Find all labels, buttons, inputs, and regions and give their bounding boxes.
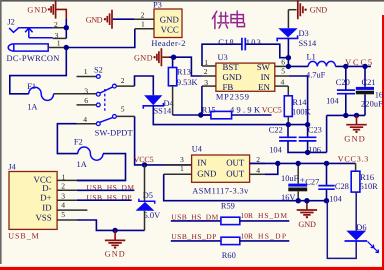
- svg-text:F1: F1: [27, 82, 36, 91]
- svg-text:C23: C23: [308, 126, 322, 135]
- wire L1 to VCC5 rail: [336, 65, 372, 67]
- wire USB_HS_DP net: [77, 199, 132, 201]
- wire J2 pin2-pin3 tie: [65, 28, 67, 39]
- resistor R14: [287, 86, 289, 96]
- wire J2 pin1 to P3 VCC: [66, 29, 135, 48]
- C27 top lead: [297, 163, 299, 183]
- S2 blade upper: [100, 87, 112, 93]
- svg-text:FB: FB: [223, 82, 234, 92]
- svg-text:F2: F2: [74, 138, 83, 147]
- S2 pin 6 line: [77, 104, 97, 106]
- LED D6 cathode bar: [345, 240, 368, 242]
- ground symbol (C20/C21): [344, 115, 366, 143]
- svg-text:16: 16: [375, 90, 383, 99]
- svg-text:10R: 10R: [241, 231, 254, 240]
- svg-text:C21: C21: [362, 78, 376, 87]
- svg-text:VCC3.3: VCC3.3: [338, 154, 369, 163]
- U3 pin 5 line: [275, 75, 289, 77]
- U4 pin 1 line: [164, 173, 192, 175]
- svg-text:104: 104: [269, 145, 282, 154]
- node C20 bottom junction: [343, 113, 348, 118]
- wire R13 bottom to FB node: [173, 114, 211, 116]
- svg-text:C28: C28: [335, 182, 349, 191]
- svg-text:USB_HS_DP: USB_HS_DP: [171, 232, 216, 241]
- svg-text:R13: R13: [177, 68, 191, 77]
- sheet bottom red border: [0, 267, 384, 270]
- svg-text:6: 6: [84, 96, 88, 105]
- svg-text:VCC5: VCC5: [345, 58, 372, 67]
- svg-text:GND: GND: [310, 6, 328, 15]
- fuse F1 body: [29, 87, 54, 100]
- J2 pin 1 line: [48, 47, 66, 49]
- sheet left border: [0, 0, 2, 264]
- svg-text:R16: R16: [360, 173, 374, 182]
- svg-text:1: 1: [84, 67, 88, 76]
- wire U3 FB down to R15: [201, 86, 203, 115]
- C22 top lead: [287, 125, 289, 138]
- svg-text:104: 104: [329, 195, 342, 204]
- svg-text:IN: IN: [197, 158, 207, 168]
- S2 pin 3 contact circle: [96, 92, 100, 96]
- svg-text:IN: IN: [261, 72, 271, 82]
- U3 pin 4 line: [275, 85, 289, 87]
- svg-text:104: 104: [326, 97, 339, 106]
- svg-text:OUT: OUT: [226, 158, 245, 168]
- resistor R13: [172, 57, 174, 67]
- svg-text:USB_M: USB_M: [8, 231, 39, 240]
- S2 blade lower: [100, 118, 113, 123]
- U3 pin 2 line: [202, 75, 216, 77]
- svg-text:10uF: 10uF: [281, 174, 299, 183]
- resistor R59 body: [221, 217, 240, 224]
- wire D6 return to gnd rail: [327, 201, 356, 259]
- capacitor C18 plates: [242, 38, 245, 51]
- svg-text:4: 4: [83, 115, 87, 124]
- P3 pin 1 line: [135, 28, 154, 30]
- diode D4 cathode bar: [143, 103, 163, 109]
- svg-text:R59: R59: [221, 202, 235, 211]
- LED arrows: [368, 242, 374, 248]
- wire U3 pin5 IN to VIN rail: [289, 76, 308, 125]
- capacitor C27 positive plate: [288, 184, 307, 187]
- wire U4 pin4 up to out: [265, 163, 278, 174]
- VCC3.3 output line: [250, 162, 356, 164]
- svg-text:SW: SW: [257, 62, 271, 72]
- svg-text:GND: GND: [223, 72, 242, 82]
- J2 jack tip graphic: [9, 27, 19, 32]
- J4 pin 3 line: [57, 199, 77, 201]
- LED D6 arrow 2: [372, 246, 378, 252]
- C20 top lead: [345, 66, 347, 90]
- wire C18 left to U3 pin1: [202, 44, 242, 66]
- wire C18 right to D3 node: [245, 44, 288, 58]
- fuse F2 body: [78, 147, 103, 160]
- S2 pin 5 line: [116, 115, 134, 117]
- R16 bottom lead: [355, 192, 357, 231]
- wire GND to J2 pin2 node: [65, 19, 67, 28]
- wire J4 pin1 up to F2: [77, 179, 126, 181]
- svg-text:L1: L1: [307, 53, 316, 62]
- svg-text:5.0V: 5.0V: [144, 211, 161, 220]
- sheet right red border: [382, 15, 384, 270]
- node C18/D3 junction: [286, 55, 291, 60]
- svg-text:HS_DP: HS_DP: [258, 231, 286, 240]
- diode D3 triangle: [278, 28, 297, 37]
- svg-text:OUT: OUT: [226, 169, 245, 179]
- svg-text:SS14: SS14: [299, 39, 318, 48]
- wire FB node to R15: [201, 114, 211, 116]
- S2 pin 6 contact circle: [96, 103, 100, 107]
- svg-text:R60: R60: [222, 251, 236, 260]
- wire S2 pin4 to F2: [57, 124, 77, 154]
- svg-text:1A: 1A: [77, 160, 87, 169]
- wire J2 tip contact line: [19, 27, 53, 29]
- svg-text:U4: U4: [192, 145, 203, 154]
- resistor R14 body: [284, 96, 292, 117]
- regulator U3 body: [216, 63, 275, 91]
- svg-text:100K: 100K: [292, 108, 311, 117]
- wire USB_HS_DP to R60: [171, 240, 221, 242]
- S2 pole 2: [113, 84, 117, 88]
- wire U4 pin3 from VCC5 node : drawn earlier; black pin stub: [164, 164, 192, 166]
- J2 pin 3 line: [53, 37, 67, 39]
- svg-text:SS14: SS14: [154, 107, 173, 116]
- svg-text:1A: 1A: [27, 103, 37, 112]
- wire junction to U3 pin2: [174, 57, 202, 76]
- svg-text:DC-PWRCON: DC-PWRCON: [7, 54, 60, 63]
- node J2 pin2 junction: [64, 25, 69, 30]
- resistor R13 body: [168, 68, 176, 86]
- wire GND symbol to R13 node: [169, 56, 174, 58]
- svg-text:1: 1: [141, 20, 145, 29]
- svg-text:HS_DM: HS_DM: [258, 211, 287, 220]
- svg-text:4: 4: [256, 166, 260, 175]
- C21 top lead: [364, 66, 366, 87]
- svg-text:VCC5: VCC5: [262, 105, 282, 114]
- svg-text:C20: C20: [336, 78, 350, 87]
- wire F1 to S2 pin3: [54, 93, 97, 95]
- svg-text:4.7uF: 4.7uF: [306, 71, 326, 80]
- header P3 body: [154, 9, 182, 38]
- D5 bottom lead: [144, 211, 146, 231]
- svg-text:3: 3: [180, 155, 184, 164]
- wire J4 pin5 to GND / D5: [77, 220, 145, 230]
- svg-text:4: 4: [61, 201, 65, 210]
- S2 pole 5: [113, 115, 117, 119]
- C20 bottom lead: [345, 94, 347, 116]
- svg-text:BST: BST: [223, 62, 240, 72]
- svg-text:GND: GND: [105, 250, 125, 259]
- U4 pin 4 line: [250, 173, 265, 175]
- U3 pin 3 line: [202, 85, 216, 87]
- C23 top lead: [307, 125, 309, 138]
- svg-text:106: 106: [308, 145, 321, 154]
- P3 pin 2 line: [134, 18, 154, 20]
- wire J2 pin1 down to F1: [10, 48, 67, 94]
- svg-text:3: 3: [61, 191, 65, 200]
- svg-text:GND: GND: [298, 220, 316, 229]
- svg-text:2: 2: [121, 76, 125, 85]
- svg-text:GND: GND: [86, 15, 103, 24]
- U4 pin 2 line: [250, 162, 265, 164]
- title 供电: [212, 11, 244, 29]
- J2 barrel graphic: [8, 44, 48, 51]
- wire S2 pole5 to VCC5 node: [135, 116, 192, 164]
- svg-text:R15: R15: [202, 105, 216, 114]
- diode D4 SS14: [144, 95, 162, 105]
- wire SW node to L1: [288, 65, 308, 67]
- node C20 top: [343, 64, 348, 69]
- J4 pin 2 line: [57, 189, 77, 191]
- cap ground rail: [327, 114, 365, 116]
- resistor R60 body: [221, 237, 240, 244]
- node R14 on VIN rail: [286, 122, 291, 127]
- node IN wire on VIN rail: [305, 122, 310, 127]
- svg-text:D+: D+: [40, 193, 51, 203]
- C27 bottom lead: [297, 191, 299, 200]
- zener D5 cathode bar: [139, 199, 155, 204]
- svg-text:S2: S2: [94, 66, 103, 75]
- wire D3 down to SW node: [287, 38, 289, 66]
- S2 pin 4 contact circle: [96, 122, 100, 126]
- GND power symbol (D3 top): [288, 0, 327, 19]
- regulator U4 body: [192, 155, 250, 182]
- resistor R16: [355, 163, 357, 171]
- ground symbol (C27/C28): [297, 201, 317, 229]
- C21 bottom lead: [364, 94, 366, 115]
- wire F2 to J4 pin1: [77, 154, 126, 181]
- svg-text:3: 3: [84, 87, 88, 96]
- node VCC5 junction: [142, 162, 147, 167]
- inductor L1 coil: [308, 61, 335, 66]
- wire R15 to VCC5: [232, 114, 272, 116]
- sheet top border: [0, 0, 384, 2]
- capacitor C21 negative plate: [356, 91, 374, 95]
- node FB junction: [198, 112, 203, 117]
- svg-text:1: 1: [57, 38, 61, 47]
- svg-text:10R: 10R: [241, 211, 254, 220]
- S2 dashed link: [104, 89, 106, 113]
- capacitor C20 plates: [337, 90, 355, 94]
- svg-text:2: 2: [204, 67, 208, 76]
- R13 bottom lead: [172, 86, 174, 115]
- node U4 pin4 junction: [275, 161, 280, 166]
- node GND junction: [112, 228, 117, 233]
- ground symbol (J4): [105, 230, 126, 258]
- svg-text:SW-DPDT: SW-DPDT: [95, 128, 133, 137]
- C23 bottom lead: [307, 141, 309, 153]
- LED D6 triangle: [346, 231, 366, 241]
- svg-text:GND: GND: [27, 5, 47, 14]
- svg-text:103: 103: [246, 38, 261, 47]
- svg-text:5: 5: [281, 67, 285, 76]
- svg-text:GND: GND: [197, 169, 216, 179]
- svg-text:ASM1117-3.3v: ASM1117-3.3v: [192, 186, 249, 195]
- node J2 pin1 junction: [64, 45, 69, 50]
- svg-text:5: 5: [121, 105, 125, 114]
- capacitor C23 plates: [299, 137, 317, 141]
- capacitor C28 plates: [318, 186, 334, 190]
- J4 pin 5 line: [57, 219, 77, 221]
- U3 pin 1 line: [202, 65, 216, 67]
- svg-text:1: 1: [204, 58, 208, 67]
- diode D3 SS14: [287, 10, 289, 29]
- svg-text:D3: D3: [299, 29, 309, 38]
- svg-text:GND: GND: [160, 14, 179, 24]
- capacitor C27 negative plate: [288, 188, 307, 192]
- svg-text:C22: C22: [269, 126, 283, 135]
- node gnd stem junction: [354, 113, 359, 118]
- svg-text:GND: GND: [134, 53, 153, 62]
- svg-text:5: 5: [61, 210, 65, 219]
- resistor R16 body: [351, 171, 360, 192]
- connector J4 body: [9, 172, 57, 230]
- J2 pin 2 line: [53, 27, 67, 29]
- S2 pin 1 contact circle: [96, 75, 100, 79]
- diode D3 cathode bar: [277, 35, 297, 41]
- wire cap-gnd riser: [326, 115, 328, 152]
- capacitor C21 positive plate: [356, 87, 374, 90]
- R14 bottom lead: [287, 117, 289, 125]
- GND power symbol (R13): [134, 48, 169, 66]
- svg-text:U3: U3: [218, 53, 228, 62]
- J4 pin 4 line: [57, 209, 87, 211]
- node SW junction: [286, 64, 291, 69]
- node C27 bottom junction: [296, 198, 301, 203]
- svg-text:J4: J4: [8, 163, 16, 172]
- wire C22 bottom to gnd riser: [288, 141, 327, 153]
- J2 arrow graphic: [25, 28, 53, 38]
- svg-text:R14: R14: [293, 98, 308, 107]
- C28 bottom lead: [326, 189, 328, 201]
- node C28 top junction: [324, 161, 329, 166]
- node C23 bottom junction: [305, 150, 310, 155]
- node gnd rail junction: [304, 198, 309, 203]
- svg-text:MP2359: MP2359: [216, 92, 249, 101]
- svg-text:6: 6: [281, 58, 285, 67]
- D5 top lead: [144, 165, 146, 201]
- GND power symbol (P3): [86, 10, 112, 29]
- wire GND to P3 pin2: [113, 18, 134, 20]
- S2 pin 2 line: [116, 85, 134, 87]
- wire R59 to HS_DM: [240, 220, 289, 222]
- svg-text:VCC: VCC: [161, 24, 179, 34]
- svg-text:P3: P3: [153, 0, 162, 9]
- wire R60 to HS_DP: [240, 240, 289, 242]
- node R13 top junction: [171, 55, 176, 60]
- C28 top lead: [326, 163, 328, 185]
- S2 pin 1 line: [77, 76, 97, 78]
- wire USB_HS_DM net: [77, 189, 135, 191]
- J4 pin 1 line: [57, 179, 77, 181]
- wire U4 pin1 GND return: [164, 174, 327, 200]
- node C27 top junction: [296, 161, 301, 166]
- svg-text:J2: J2: [7, 18, 14, 27]
- capacitor C22 plates: [279, 137, 297, 141]
- svg-text:USB_HS_DM: USB_HS_DM: [171, 212, 218, 221]
- zener D5 triangle: [136, 202, 155, 211]
- wire USB_HS_DM to R59: [171, 220, 221, 222]
- wire S2 pole2 to D4: [135, 76, 154, 95]
- node C28 bottom junction: [324, 198, 329, 203]
- svg-text:9.53K: 9.53K: [177, 78, 198, 87]
- node C21 top: [362, 64, 367, 69]
- svg-text:16V: 16V: [281, 193, 295, 202]
- svg-text:C18: C18: [218, 38, 234, 47]
- svg-text:D-: D-: [42, 183, 51, 193]
- resistor R15 body: [211, 111, 232, 118]
- svg-text:2: 2: [141, 10, 145, 19]
- svg-text:2: 2: [61, 182, 65, 191]
- S2 pin 4 line: [77, 123, 97, 125]
- svg-text:GND: GND: [344, 133, 365, 143]
- svg-text:VSS: VSS: [35, 212, 51, 222]
- wire D4 to VIN rail: [153, 106, 307, 125]
- svg-text:510R: 510R: [360, 182, 379, 191]
- U3 pin 6 line: [275, 65, 289, 67]
- svg-text:Header-2: Header-2: [151, 39, 185, 48]
- svg-text:ID: ID: [42, 203, 51, 213]
- GND power symbol (top-left, J2): [27, 0, 66, 19]
- svg-text:C27: C27: [305, 177, 319, 186]
- svg-text:EN: EN: [258, 82, 270, 92]
